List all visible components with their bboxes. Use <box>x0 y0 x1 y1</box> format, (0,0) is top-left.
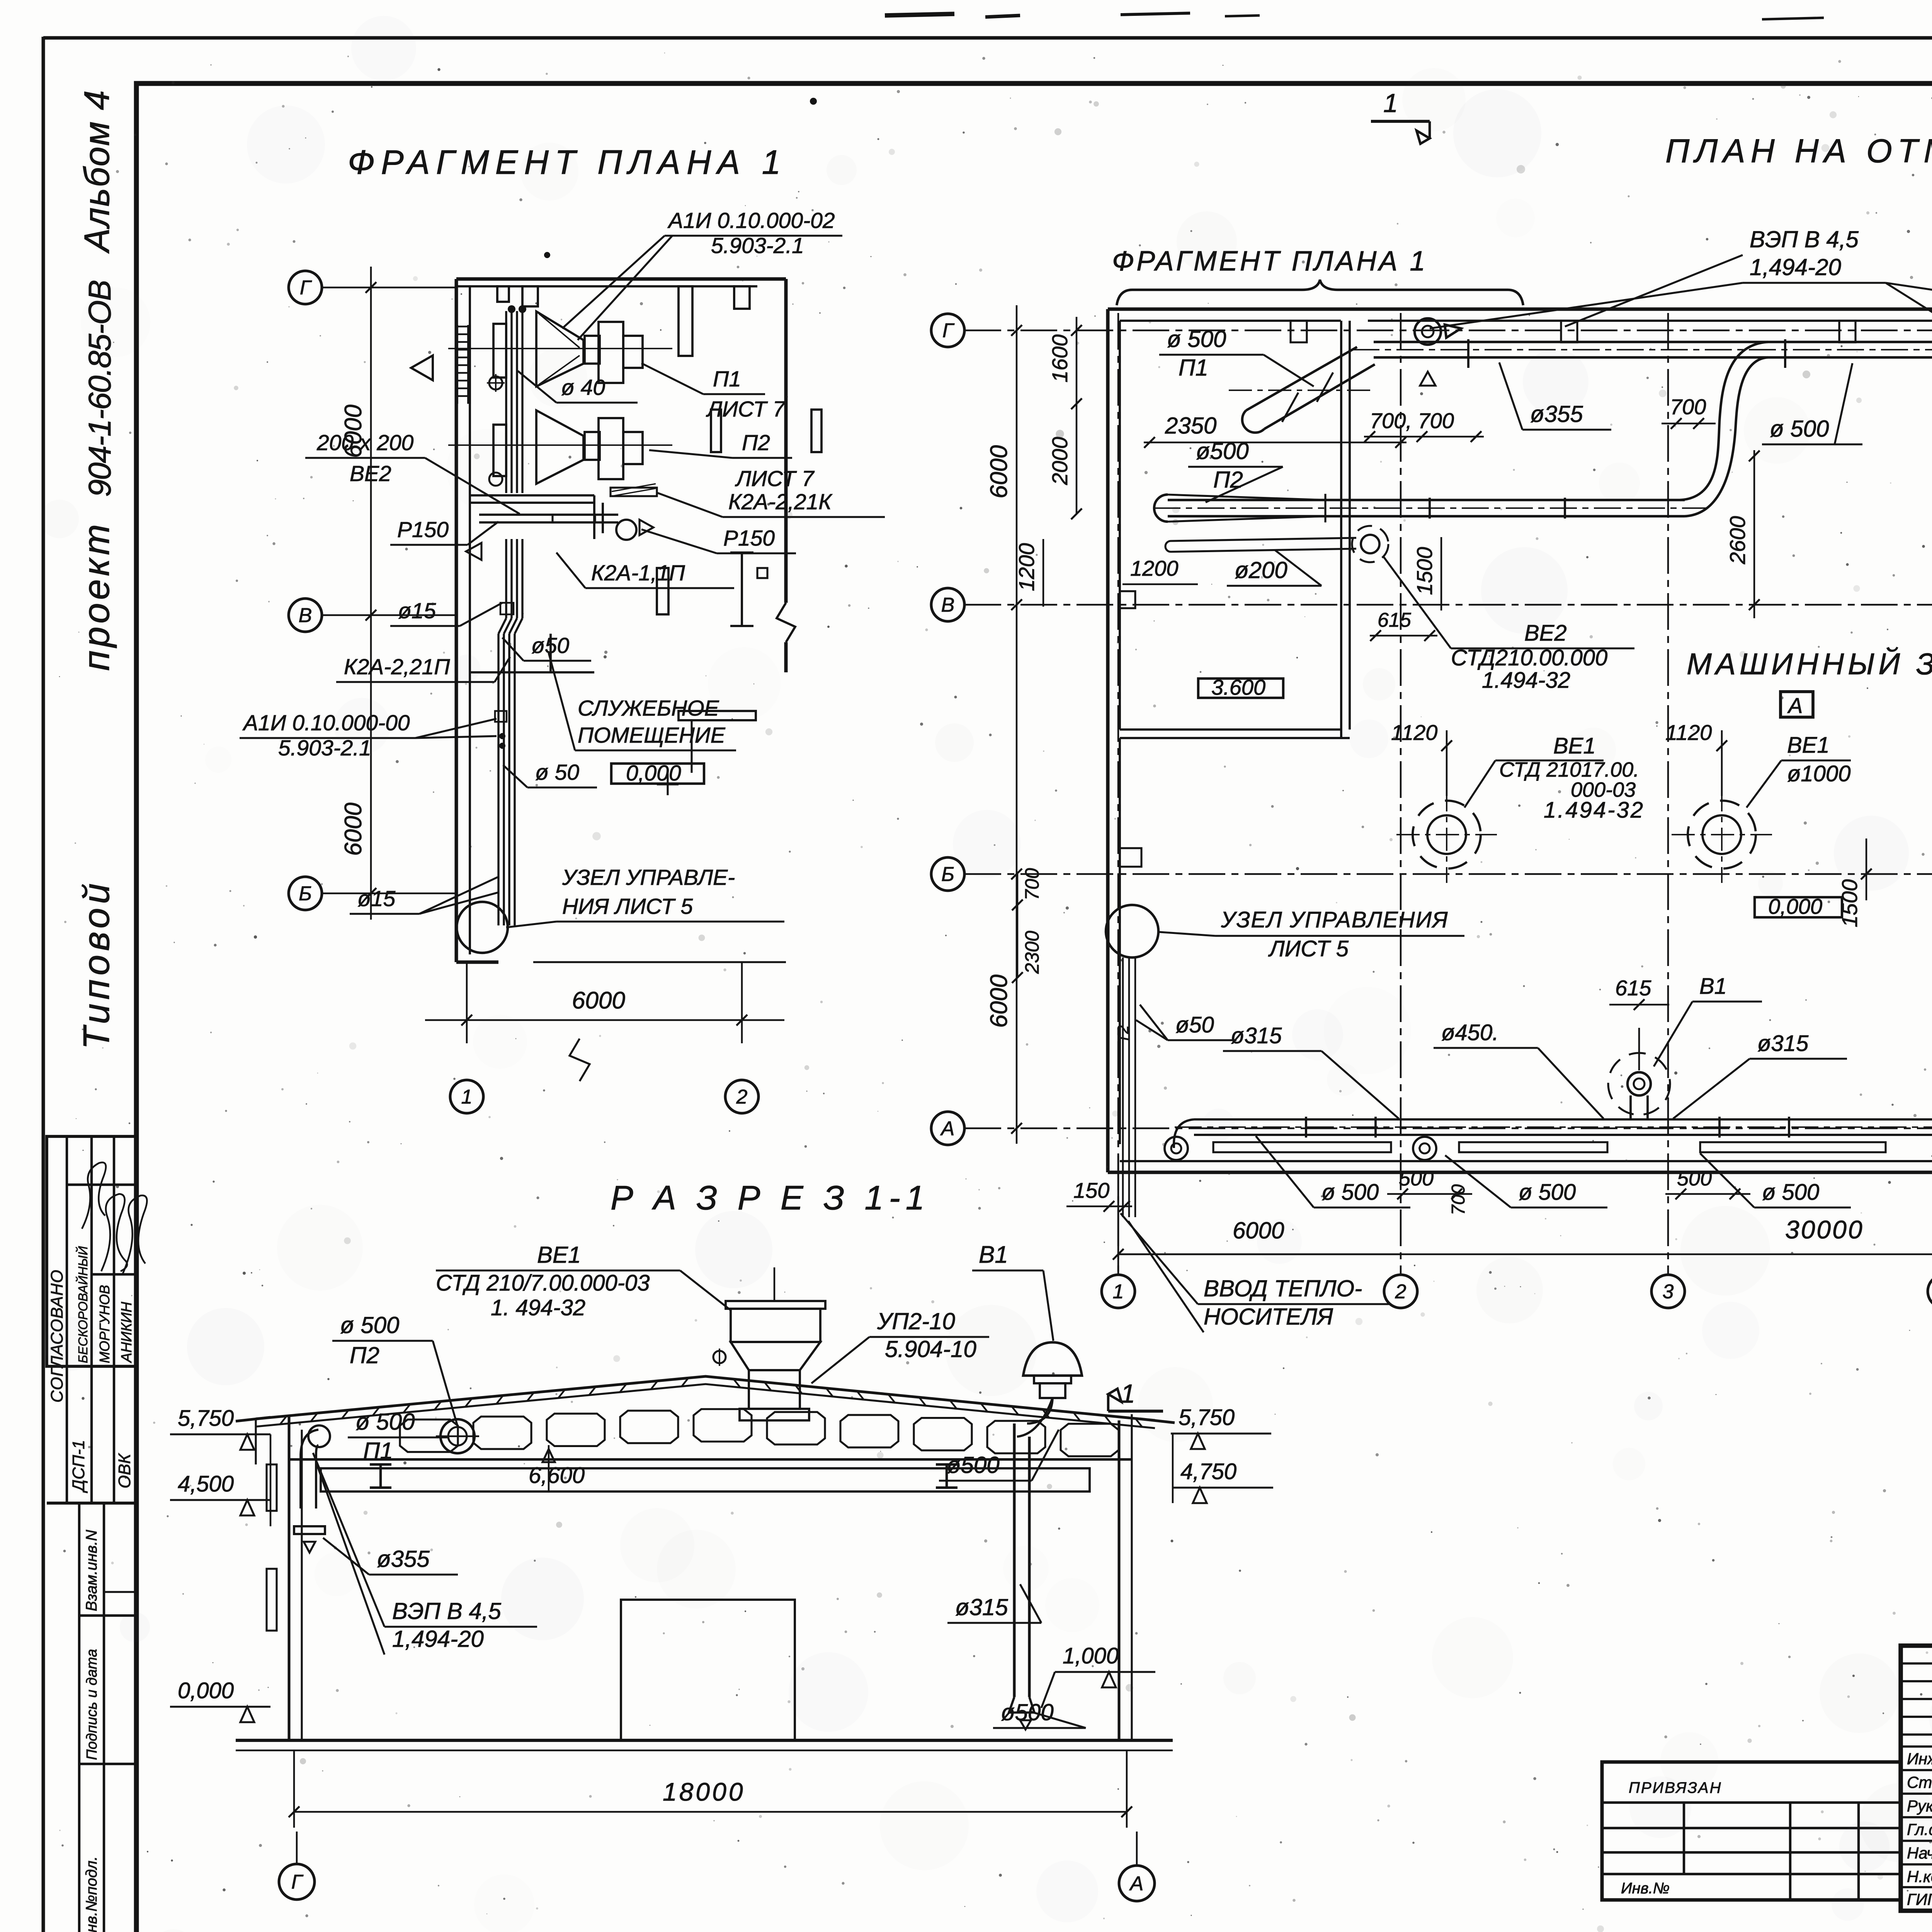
svg-text:1600: 1600 <box>1048 334 1072 383</box>
svg-text:200 х 200: 200 х 200 <box>316 430 414 455</box>
svg-text:Инв.№подл.: Инв.№подл. <box>83 1856 100 1932</box>
svg-text:Альбом 4: Альбом 4 <box>77 90 117 254</box>
svg-text:К2А-2,21П: К2А-2,21П <box>344 655 450 679</box>
svg-text:2300: 2300 <box>1021 931 1043 974</box>
svg-text:Г: Г <box>300 277 312 299</box>
svg-text:3.600: 3.600 <box>1211 675 1265 699</box>
svg-text:В: В <box>941 594 955 616</box>
svg-text:ø50: ø50 <box>531 633 570 658</box>
svg-text:ø 500: ø 500 <box>1321 1180 1379 1205</box>
svg-text:1,494-20: 1,494-20 <box>1750 254 1841 280</box>
svg-text:4,750: 4,750 <box>1180 1459 1236 1484</box>
svg-text:ГИП: ГИП <box>1907 1890 1932 1908</box>
svg-text:СЛУЖЕБНОЕ: СЛУЖЕБНОЕ <box>578 696 719 721</box>
svg-text:1200: 1200 <box>1130 556 1179 580</box>
svg-text:1500: 1500 <box>1412 547 1437 595</box>
svg-text:П2: П2 <box>742 430 770 455</box>
svg-text:П2: П2 <box>1213 467 1243 493</box>
svg-text:А: А <box>940 1117 955 1140</box>
svg-text:6,600: 6,600 <box>529 1463 585 1488</box>
svg-text:615: 615 <box>1378 609 1412 631</box>
svg-text:2600: 2600 <box>1725 516 1750 565</box>
svg-text:1. 494-32: 1. 494-32 <box>491 1295 585 1320</box>
svg-text:2: 2 <box>1395 1281 1406 1303</box>
svg-text:1120: 1120 <box>1665 720 1712 745</box>
svg-text:НОСИТЕЛЯ: НОСИТЕЛЯ <box>1204 1304 1333 1330</box>
svg-text:АНИКИН: АНИКИН <box>119 1301 135 1363</box>
svg-text:А1И 0.10.000-02: А1И 0.10.000-02 <box>667 208 835 233</box>
svg-text:ø 500: ø 500 <box>1519 1180 1576 1205</box>
svg-text:1120: 1120 <box>1391 720 1437 745</box>
svg-text:30000: 30000 <box>1785 1215 1864 1244</box>
svg-text:Инжен.: Инжен. <box>1907 1750 1932 1768</box>
svg-text:4,500: 4,500 <box>178 1471 234 1497</box>
svg-text:700: 700 <box>1670 395 1706 419</box>
svg-text:ø 500: ø 500 <box>340 1312 399 1338</box>
svg-text:ПЛАН НА ОТМ. 0,000: ПЛАН НА ОТМ. 0,000 <box>1665 133 1932 170</box>
svg-text:1,494-20: 1,494-20 <box>392 1626 484 1652</box>
svg-text:1: 1 <box>1113 1281 1124 1303</box>
svg-text:6000: 6000 <box>986 975 1012 1028</box>
svg-text:А: А <box>1787 693 1803 718</box>
svg-text:1: 1 <box>461 1086 473 1108</box>
svg-text:Инв.№: Инв.№ <box>1621 1880 1670 1897</box>
svg-text:Подпись и дата: Подпись и дата <box>84 1649 100 1760</box>
svg-text:УП2-10: УП2-10 <box>877 1308 955 1334</box>
svg-text:ВЕ1: ВЕ1 <box>537 1242 581 1268</box>
svg-text:ВЭП В 4,5: ВЭП В 4,5 <box>392 1598 502 1624</box>
svg-text:Р А З Р Е З 1-1: Р А З Р Е З 1-1 <box>611 1179 930 1217</box>
svg-text:ЛИСТ 7: ЛИСТ 7 <box>735 466 815 491</box>
svg-text:В1: В1 <box>979 1242 1008 1268</box>
svg-text:В: В <box>299 604 312 627</box>
svg-text:ø200: ø200 <box>1235 557 1287 583</box>
svg-text:ОВК: ОВК <box>115 1453 134 1488</box>
svg-text:700: 700 <box>1448 1184 1469 1215</box>
svg-text:В1: В1 <box>1699 974 1727 999</box>
svg-text:Р150: Р150 <box>397 517 449 542</box>
svg-text:1.494-32: 1.494-32 <box>1482 668 1570 693</box>
svg-text:ø15: ø15 <box>398 599 436 623</box>
svg-text:ø500: ø500 <box>1196 438 1249 464</box>
svg-text:ø 500: ø 500 <box>1762 1180 1819 1205</box>
svg-text:П1: П1 <box>1179 355 1208 381</box>
svg-text:П1: П1 <box>713 367 741 391</box>
svg-text:Г: Г <box>291 1871 304 1893</box>
svg-text:150: 150 <box>1073 1178 1109 1202</box>
svg-text:ø15: ø15 <box>357 886 396 911</box>
svg-text:Взам.инв.N: Взам.инв.N <box>83 1530 100 1611</box>
svg-text:П1: П1 <box>363 1438 393 1464</box>
svg-text:УЗЕЛ УПРАВЛЕНИЯ: УЗЕЛ УПРАВЛЕНИЯ <box>1221 907 1449 932</box>
svg-text:ВВОД ТЕПЛО-: ВВОД ТЕПЛО- <box>1204 1276 1362 1301</box>
svg-text:6000: 6000 <box>572 987 625 1014</box>
svg-text:0,000: 0,000 <box>178 1678 234 1703</box>
svg-text:ø 500: ø 500 <box>355 1409 415 1435</box>
svg-text:ø 500: ø 500 <box>1167 326 1226 352</box>
svg-text:ДСП-1: ДСП-1 <box>69 1440 88 1493</box>
svg-text:500: 500 <box>1677 1167 1712 1190</box>
svg-text:Т2: Т2 <box>1115 1025 1132 1043</box>
svg-text:5,750: 5,750 <box>178 1406 234 1431</box>
svg-text:ФРАГМЕНТ ПЛАНА 1: ФРАГМЕНТ ПЛАНА 1 <box>1112 246 1427 277</box>
svg-text:проект: проект <box>76 521 117 671</box>
svg-text:ЛИСТ 5: ЛИСТ 5 <box>1268 936 1349 961</box>
svg-text:НИЯ ЛИСТ 5: НИЯ ЛИСТ 5 <box>562 894 693 919</box>
svg-text:0,000: 0,000 <box>1768 894 1822 918</box>
svg-text:ВЕ1: ВЕ1 <box>1787 733 1830 758</box>
svg-text:5.903-2.1: 5.903-2.1 <box>711 233 804 258</box>
svg-text:3: 3 <box>1663 1281 1674 1303</box>
svg-text:2: 2 <box>736 1086 748 1108</box>
svg-text:Н.контр.: Н.контр. <box>1907 1867 1932 1886</box>
svg-text:СТД 21017.00.: СТД 21017.00. <box>1499 758 1639 781</box>
svg-text:Б: Б <box>941 863 954 886</box>
svg-text:700, 700: 700, 700 <box>1370 408 1454 433</box>
svg-text:ВЕ2: ВЕ2 <box>350 461 391 486</box>
svg-text:1200: 1200 <box>1014 543 1039 591</box>
svg-text:1.494-32: 1.494-32 <box>1544 798 1645 823</box>
svg-text:ø315: ø315 <box>1231 1023 1282 1048</box>
svg-text:МОРГУНОВ: МОРГУНОВ <box>97 1285 112 1363</box>
svg-text:ø355: ø355 <box>377 1546 430 1572</box>
svg-text:700: 700 <box>1021 868 1043 900</box>
svg-text:2350: 2350 <box>1165 413 1216 439</box>
svg-text:ø315: ø315 <box>955 1594 1008 1620</box>
svg-text:ø1000: ø1000 <box>1787 761 1850 786</box>
svg-text:1,000: 1,000 <box>1063 1643 1119 1668</box>
svg-text:УЗЕЛ УПРАВЛЕ-: УЗЕЛ УПРАВЛЕ- <box>562 865 735 890</box>
svg-text:Г: Г <box>942 320 955 342</box>
svg-text:П2: П2 <box>350 1342 379 1368</box>
svg-text:Типовой: Типовой <box>76 879 117 1049</box>
svg-text:А: А <box>1129 1872 1144 1895</box>
svg-text:СТД210.00.000: СТД210.00.000 <box>1451 645 1607 670</box>
svg-text:615: 615 <box>1615 976 1651 1000</box>
svg-text:ø50: ø50 <box>1175 1012 1214 1037</box>
svg-text:Р150: Р150 <box>723 526 775 551</box>
svg-text:0,000: 0,000 <box>626 761 681 786</box>
svg-text:Б: Б <box>299 883 312 905</box>
svg-text:ЛИСТ 7: ЛИСТ 7 <box>706 397 786 422</box>
svg-text:МАШИННЫЙ ЗАЛ: МАШИННЫЙ ЗАЛ <box>1687 647 1932 681</box>
svg-text:ø 50: ø 50 <box>535 760 579 785</box>
svg-text:6000: 6000 <box>340 803 367 856</box>
svg-text:ø315: ø315 <box>1757 1031 1809 1056</box>
svg-text:ВЭП В 4,5: ВЭП В 4,5 <box>1750 226 1859 252</box>
svg-text:2000: 2000 <box>1048 437 1072 485</box>
svg-text:СТД 210/7.00.000-03: СТД 210/7.00.000-03 <box>436 1270 650 1296</box>
svg-text:К2А-1,1П: К2А-1,1П <box>591 561 685 585</box>
svg-text:ПОМЕЩЕНИЕ: ПОМЕЩЕНИЕ <box>578 723 726 748</box>
svg-text:500: 500 <box>1399 1167 1434 1190</box>
svg-text:ø500: ø500 <box>1001 1699 1054 1725</box>
svg-text:18000: 18000 <box>663 1777 745 1806</box>
svg-text:1: 1 <box>1383 88 1398 118</box>
svg-text:6000: 6000 <box>986 445 1012 498</box>
svg-text:К2А-2,21К: К2А-2,21К <box>728 490 833 514</box>
